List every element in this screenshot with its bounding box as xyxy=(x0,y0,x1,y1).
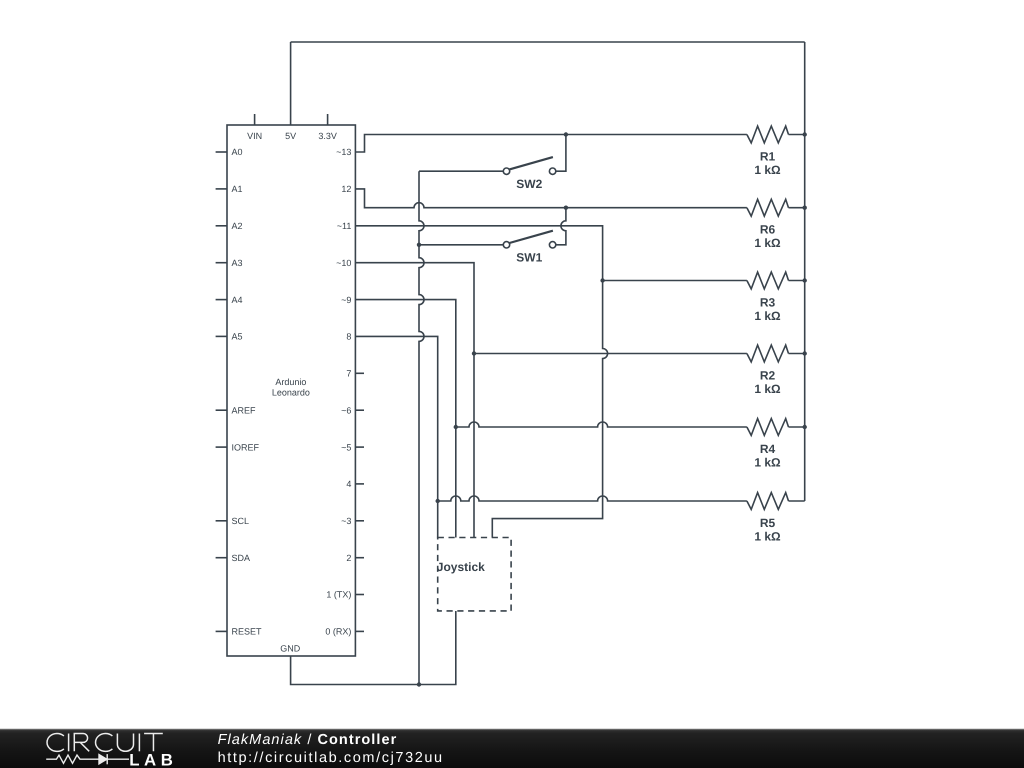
wire pin12 to R6 xyxy=(355,189,747,208)
node rail R1 xyxy=(803,132,807,136)
wire GND bottom xyxy=(291,611,456,685)
wire R3 left xyxy=(603,280,747,282)
wire ground vertical xyxy=(419,171,424,684)
svg-text:5V: 5V xyxy=(285,131,296,141)
svg-text:1 kΩ: 1 kΩ xyxy=(754,309,781,323)
svg-text:Joystick: Joystick xyxy=(437,560,485,574)
svg-text:7: 7 xyxy=(346,369,351,379)
svg-text:R4: R4 xyxy=(760,442,776,456)
svg-text:8: 8 xyxy=(346,332,351,342)
resistor R4 xyxy=(747,419,789,470)
pin AREF stub xyxy=(216,409,227,411)
wire SW1 right to node xyxy=(556,208,566,245)
svg-text:1 kΩ: 1 kΩ xyxy=(754,382,781,396)
svg-text:R1: R1 xyxy=(760,150,776,164)
node R3 tee xyxy=(600,278,604,282)
svg-text:http://circuitlab.com/cj732uu: http://circuitlab.com/cj732uu xyxy=(218,750,444,766)
wire right rail xyxy=(804,42,806,501)
pin A1 stub xyxy=(216,188,227,190)
svg-text:2: 2 xyxy=(346,553,351,563)
pin A2 stub xyxy=(216,225,227,227)
svg-text:A1: A1 xyxy=(232,184,243,194)
svg-text:4: 4 xyxy=(346,479,351,489)
pin 7 stub xyxy=(355,372,364,374)
node pin12/SW1 xyxy=(564,206,568,210)
svg-text:GND: GND xyxy=(280,644,301,654)
pin IOREF stub xyxy=(216,446,227,448)
pin RESET stub xyxy=(216,630,227,632)
node SW1 left / ground xyxy=(417,243,421,247)
pin 2 stub xyxy=(355,557,364,559)
svg-text:~6: ~6 xyxy=(341,405,351,415)
svg-text:R2: R2 xyxy=(760,369,776,383)
resistor R5 xyxy=(747,493,789,544)
svg-text:SCL: SCL xyxy=(232,516,250,526)
IC U1 Ardunio Leonardo body xyxy=(227,125,355,656)
svg-text:R5: R5 xyxy=(760,516,776,530)
wire R2 left xyxy=(474,353,747,355)
wire SW2 right to node xyxy=(556,135,566,172)
node R2 tee xyxy=(472,351,476,355)
wire top 5V rail xyxy=(291,41,805,43)
pin ~3 stub xyxy=(355,520,364,522)
svg-text:12: 12 xyxy=(341,184,351,194)
resistor R2 xyxy=(747,345,789,396)
pin 4 stub xyxy=(355,483,364,485)
node GND tee xyxy=(417,682,421,686)
wire R5 right lead xyxy=(789,500,805,502)
pin 0RX stub xyxy=(355,630,364,632)
svg-text:~11: ~11 xyxy=(337,221,352,231)
pin ~5 stub xyxy=(355,446,364,448)
svg-text:A0: A0 xyxy=(232,147,243,157)
svg-text:A4: A4 xyxy=(232,295,243,305)
wire R3 right lead xyxy=(789,280,805,282)
wire pin13 to R1 xyxy=(355,135,747,153)
pin 3.3V stub xyxy=(327,114,329,125)
switch SW2 xyxy=(503,157,556,191)
resistor R1 xyxy=(747,126,789,177)
svg-text:AREF: AREF xyxy=(232,405,257,415)
svg-text:FlakManiak / Controller: FlakManiak / Controller xyxy=(218,732,398,748)
svg-text:3.3V: 3.3V xyxy=(318,131,337,141)
wire R5 left xyxy=(438,496,747,501)
pin SCL stub xyxy=(216,520,227,522)
wire pin9 to joystick pin2 xyxy=(355,300,455,538)
pin A4 stub xyxy=(216,299,227,301)
wire pin10 to joystick pin3 xyxy=(355,263,474,538)
svg-text:A2: A2 xyxy=(232,221,243,231)
svg-text:R6: R6 xyxy=(760,223,776,237)
wire 5V riser xyxy=(290,42,292,125)
svg-text:SW2: SW2 xyxy=(516,177,542,191)
node R4 tee xyxy=(454,425,458,429)
resistor R3 xyxy=(747,272,789,323)
node pin13/SW2 xyxy=(564,132,568,136)
pin A0 stub xyxy=(216,151,227,153)
node rail R2 xyxy=(803,351,807,355)
svg-text:1 kΩ: 1 kΩ xyxy=(754,236,781,250)
svg-text:~13: ~13 xyxy=(336,147,351,157)
node rail R4 xyxy=(803,425,807,429)
wire R4 left xyxy=(456,422,747,427)
wire pin11 to joystick pin4 xyxy=(355,226,607,538)
wire R4 right lead xyxy=(789,426,805,428)
svg-text:1 kΩ: 1 kΩ xyxy=(754,163,781,177)
svg-text:Leonardo: Leonardo xyxy=(272,388,310,398)
svg-text:~3: ~3 xyxy=(341,516,351,526)
logo CIRCUIT drawn letters xyxy=(47,733,163,751)
svg-text:A3: A3 xyxy=(232,258,243,268)
svg-text:A5: A5 xyxy=(232,332,243,342)
wire pin8 to joystick pin1 xyxy=(355,336,437,537)
pin SDA stub xyxy=(216,557,227,559)
wire SW2 left xyxy=(419,170,503,172)
svg-text:Ardunio: Ardunio xyxy=(275,377,306,387)
pin VIN stub xyxy=(254,114,256,125)
wire R6 right lead xyxy=(789,207,805,209)
node rail R3 xyxy=(803,278,807,282)
wire R1 right lead xyxy=(789,134,805,136)
svg-text:SW1: SW1 xyxy=(516,251,542,265)
pin ~6 stub xyxy=(355,409,364,411)
node rail R6 xyxy=(803,206,807,210)
svg-text:1 kΩ: 1 kΩ xyxy=(754,456,781,470)
svg-text:1 (TX): 1 (TX) xyxy=(326,590,351,600)
svg-text:~9: ~9 xyxy=(341,295,351,305)
svg-text:LAB: LAB xyxy=(129,750,177,768)
node R5 tee xyxy=(436,499,440,503)
svg-text:IOREF: IOREF xyxy=(232,442,260,452)
pin 1TX stub xyxy=(355,594,364,596)
resistor R6 xyxy=(747,199,789,250)
pin A3 stub xyxy=(216,262,227,264)
svg-text:1 kΩ: 1 kΩ xyxy=(754,530,781,544)
pin A5 stub xyxy=(216,335,227,337)
wire SW1 left xyxy=(419,244,503,246)
joystick box xyxy=(437,538,511,611)
svg-text:R3: R3 xyxy=(760,296,776,310)
footer bar xyxy=(0,729,1024,768)
svg-text:0 (RX): 0 (RX) xyxy=(325,627,351,637)
svg-text:~10: ~10 xyxy=(336,258,351,268)
wire R2 right lead xyxy=(789,353,805,355)
logo resistor-diode glyph xyxy=(46,754,129,764)
svg-text:SDA: SDA xyxy=(232,553,251,563)
svg-text:~5: ~5 xyxy=(341,442,351,452)
switch SW1 xyxy=(503,231,556,265)
svg-text:VIN: VIN xyxy=(247,131,262,141)
svg-text:RESET: RESET xyxy=(232,627,263,637)
